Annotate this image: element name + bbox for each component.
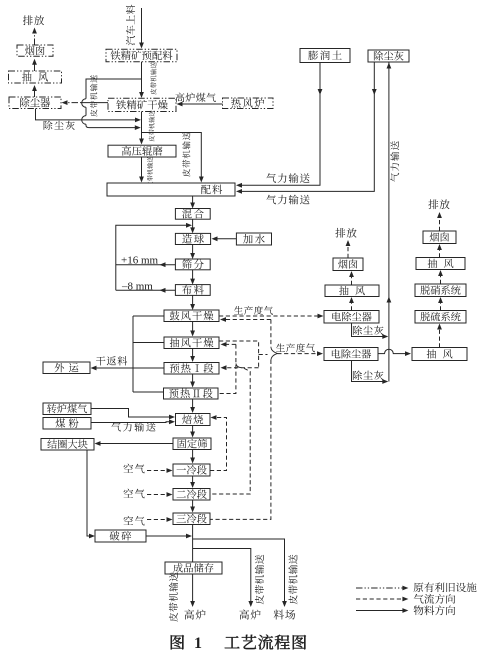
wire 预热Ⅰ段→预热Ⅱ段	[190, 374, 195, 388]
label 皮带机输送 v6	[182, 132, 190, 177]
svg-text:–8 mm: –8 mm	[121, 280, 153, 292]
box 预热Ⅱ段 B17	[164, 388, 219, 399]
label 空气 1	[124, 464, 145, 474]
wire 预热Ⅱ段 link (dashed)	[218, 344, 242, 393]
wire 抽风3→烟囱3 (dashed up)	[437, 244, 442, 258]
wire 干返料→外运	[91, 366, 134, 371]
wire 干燥→高压辊磨	[139, 112, 144, 145]
wire return riser→造球	[116, 223, 192, 290]
wire 配料→混合	[190, 196, 195, 209]
box 脱硫系统 B38	[415, 311, 466, 324]
box 结圈大块 B28	[41, 439, 94, 451]
label 汽车上料 (vertical)	[126, 5, 135, 46]
label 空气 2	[124, 489, 145, 499]
box 配料 B8 (wide)	[107, 183, 235, 196]
box 筛分 B12	[175, 259, 210, 270]
wire 除尘灰→配料 (气力输送)	[236, 62, 377, 194]
box 鼓风干燥 B14	[164, 310, 219, 322]
box 除尘灰 B30	[368, 50, 409, 62]
box 外运 B25	[43, 362, 90, 374]
box 焙烧 B18	[176, 414, 211, 426]
box 抽风干燥 B15	[164, 337, 219, 349]
wire 三冷段→成品储存 spine	[192, 525, 194, 562]
label 皮带机输送 v8	[169, 572, 178, 621]
box 二冷段 B21	[173, 489, 210, 501]
wire 一冷段→焙烧 recycle (dashed)	[210, 415, 227, 470]
box 烟囱 B1 (legacy)	[17, 45, 53, 56]
label 皮带机输送 v9	[255, 555, 264, 604]
wire legend 气流方向 line	[356, 597, 408, 602]
wire 抽风干燥→预热Ⅰ段	[190, 349, 195, 363]
wire 预热Ⅱ段→焙烧	[190, 399, 195, 413]
label 高炉煤气	[175, 93, 216, 102]
wire 布料→鼓风干燥	[190, 295, 195, 310]
wire 脱硫→脱硝 (dashed up)	[438, 297, 443, 311]
box 抽风 B32	[325, 285, 379, 297]
label 除尘灰 a	[44, 121, 75, 130]
wire 空气→二冷段	[147, 492, 173, 497]
box 破碎 B23	[95, 530, 146, 542]
box 煤粉 B27	[43, 418, 91, 430]
box 布料 B13	[175, 285, 210, 296]
wire belt bypass 皮带机输送 (hops)	[82, 79, 142, 130]
label 皮带机输送 v5	[147, 157, 153, 188]
wire branch→高炉(2)	[193, 549, 254, 608]
wire 抽风→烟囱 (dash-dot, arrow up)	[32, 59, 37, 71]
wire 电除尘器1 除尘灰 out	[352, 323, 389, 339]
wire long riser 三冷段→brace (dashed)	[211, 320, 278, 520]
wire 脱硝→抽风3 (dashed up)	[438, 270, 443, 284]
label 生产度气 2	[276, 343, 315, 352]
wire 抽风4→脱硫 (dashed up)	[437, 324, 442, 348]
wire 干返料 collector	[133, 316, 164, 392]
wire 转炉煤气→焙烧	[91, 409, 175, 420]
label legend t1	[414, 582, 477, 592]
wire 空气→一冷段	[147, 468, 173, 473]
label 排放 (mid)	[335, 228, 356, 238]
label +16 mm	[121, 255, 159, 267]
wire branch→料场	[193, 539, 287, 607]
box 膨润土 B29	[300, 49, 350, 63]
label legend t3	[414, 605, 455, 615]
wire 预配料→干燥	[139, 62, 144, 98]
box 铁精矿干燥 B5 (legacy)	[108, 98, 176, 111]
wire legend 物料方向 line	[356, 608, 408, 613]
label 皮带机输送 v2	[150, 62, 156, 94]
box 抽风 B2 (legacy)	[9, 71, 62, 83]
box 固定筛 B19	[173, 438, 211, 450]
label 皮带机输送 v10	[288, 555, 297, 604]
box 抽风 B36	[416, 258, 465, 270]
wire 除尘器→除尘灰 line	[36, 109, 142, 123]
wire 空气→三冷段	[147, 517, 173, 522]
wire 抽风2→烟囱2 (dashed up)	[349, 271, 354, 285]
label 排放 (right)	[428, 199, 449, 209]
wire 电除尘器2→抽风4 (hop)	[378, 349, 411, 356]
box 加水 B11	[236, 233, 271, 245]
wire 电除尘器1→抽风2 (dashed up)	[349, 297, 354, 311]
wire 生产度气→电除尘器2 (dashed)	[277, 351, 323, 356]
label 生产度气 1	[234, 306, 273, 315]
label -8 mm	[121, 280, 153, 292]
wire 除尘器→抽风 (dash-dot, arrow up)	[32, 85, 37, 97]
wire 焙烧→固定筛	[190, 426, 195, 438]
wire 电除尘器2 除尘灰 out	[352, 361, 389, 384]
wire 辊磨→配料	[139, 157, 144, 183]
label 除尘灰 1	[353, 326, 384, 335]
label 气力输送 h1	[266, 173, 309, 183]
wire 鼓风干燥→抽风干燥	[190, 322, 195, 337]
svg-text:1: 1	[194, 635, 202, 652]
wire 筛分 +16mm return	[116, 262, 176, 267]
box 抽风 B39	[412, 348, 467, 361]
wire 汽车上料 feed line	[139, 8, 144, 49]
wire 破碎→spine	[146, 534, 192, 539]
wire dust-ash riser 气力输送	[387, 62, 392, 382]
box 三冷段 B22	[173, 513, 210, 525]
wire legend 原有利旧设施 line	[356, 586, 408, 591]
label 除尘灰 2	[353, 371, 384, 380]
wire 固定筛→结圈大块	[95, 441, 174, 446]
box 预热Ⅰ段 B16	[164, 363, 219, 375]
wire 二冷段 riser (dashed)	[211, 368, 251, 494]
box 电除尘器 B33	[324, 311, 379, 324]
wire 造球→筛分	[190, 245, 195, 260]
wire 热风炉→干燥 高炉煤气	[177, 102, 223, 107]
wire 布料 -8mm return	[116, 288, 176, 293]
label 皮带机输送 v4	[149, 111, 155, 142]
label 皮带机输送 v3	[90, 75, 97, 117]
wire 烟囱→排放 (dash-dot, arrow up)	[32, 28, 37, 46]
wire 干燥→除尘器 (arrow left)	[62, 100, 109, 105]
box 一冷段 B20	[173, 464, 210, 476]
box 脱硝系统 B37	[415, 284, 466, 297]
wire arrow→抽风干燥 (dashed)	[221, 342, 236, 347]
wire 成品储存→高炉	[190, 574, 195, 607]
wire 一冷段→二冷段	[190, 476, 195, 488]
wire 结圈大块→破碎	[87, 450, 95, 538]
box 除尘器 B3 (legacy)	[9, 97, 61, 109]
wire 生产度气→电除尘器1 (dashed)	[219, 314, 324, 319]
wire arrow→预热Ⅰ段 (dashed)	[221, 365, 259, 370]
label 空气 3	[124, 516, 145, 526]
label 高炉 (mid)	[239, 610, 260, 620]
box 电除尘器 B34	[324, 348, 378, 361]
wire 干燥→配料 bypass	[142, 133, 204, 183]
box 混合 B9	[175, 209, 210, 220]
wire bracket 抽风干燥 out (dashed)	[219, 341, 268, 368]
box 铁精矿预配料 B4 (legacy)	[106, 49, 177, 62]
box 烟囱 B31	[333, 258, 363, 271]
label 干返料	[96, 356, 127, 365]
wire 烟囱2→排放 (dashed up)	[346, 240, 351, 258]
box 烟囱 B35	[423, 231, 456, 244]
label 料场	[274, 610, 296, 620]
wire 混合→造球	[190, 219, 195, 233]
wire return→鼓风干燥 (dashed)	[220, 317, 271, 322]
box 造球 B10	[175, 233, 210, 244]
wire 膨润土→配料 (气力输送)	[236, 63, 322, 188]
label 气力输送 h2	[266, 195, 309, 205]
box 成品储存 B24	[165, 562, 222, 574]
wire 烟囱3→排放 (dashed up)	[437, 212, 442, 231]
label 气力输送 h3	[111, 422, 155, 431]
wire 煤粉→焙烧 气力输送	[91, 419, 175, 424]
label 配料 text	[201, 185, 222, 195]
label 气力输送 v7	[390, 141, 399, 182]
wire 二冷段→三冷段	[190, 500, 195, 513]
label 高炉 (left)	[184, 610, 205, 620]
wire 固定筛→一冷段	[190, 450, 195, 464]
label caption 图1 工艺流程图	[171, 635, 306, 652]
svg-text:+16 mm: +16 mm	[121, 255, 159, 267]
box 热风炉 B6 (legacy)	[223, 98, 274, 109]
box 高压辊磨 B7	[108, 145, 176, 157]
wire 筛分→布料	[190, 270, 195, 285]
box 转炉煤气 B26	[43, 403, 91, 415]
wire 加水→造球	[212, 236, 237, 241]
label 排放 (top-left)	[23, 15, 44, 25]
label legend t2	[414, 594, 455, 604]
